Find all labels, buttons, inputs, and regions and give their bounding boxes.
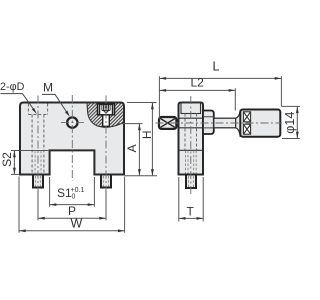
side M hole lines [179,118,204,128]
dim phi14 [281,106,300,138]
centerline body vertical [71,95,73,181]
dim S1 [50,177,95,207]
screw end X-box [159,117,176,129]
side recess [181,103,201,114]
dim L2 [159,88,235,110]
side stud hole hidden lines [186,151,197,174]
side stud thread hidden lines [188,151,194,174]
svg-text:H: H [140,130,154,139]
dim H [125,103,157,176]
hex socket [102,105,110,113]
svg-text:L: L [213,60,220,74]
side stud thread dashes [189,176,194,187]
svg-text:0: 0 [72,194,76,201]
cap insert upper X [243,112,250,122]
front view pin left [33,175,43,188]
svg-text:S2: S2 [0,152,14,167]
dim L [159,76,281,119]
thread dashes pin right [104,176,109,187]
screw shank [103,115,110,127]
svg-text:W: W [71,217,83,231]
hole M circle [67,117,77,127]
nut chamfer lines [203,117,214,128]
svg-text:L2: L2 [191,76,205,90]
svg-text:φ14: φ14 [283,112,297,134]
svg-text:2-φD: 2-φD [0,81,25,93]
dim W [19,177,125,233]
dim S2 [11,151,19,175]
centerline right hole [105,96,107,194]
centerline M horizontal [61,122,84,124]
dim T [179,177,203,222]
notch top plane line left [20,150,50,152]
counterbore white right [98,104,115,115]
svg-text:T: T [187,205,195,219]
svg-text:A: A [125,144,139,152]
side centerline vertical [190,96,192,194]
centerline left hole [37,96,39,194]
side notch top line [179,149,204,151]
leader M [42,94,68,114]
dim P [38,191,106,221]
front view pin right [101,175,111,188]
shaft [214,118,236,128]
screw axis centerline [156,122,283,124]
section break line [87,103,124,128]
hole hidden left [32,115,44,175]
flare [236,110,241,137]
cap phi14 [240,110,280,137]
dim A [117,124,143,176]
counterbore hidden left [28,104,47,115]
side hidden hole lines [185,114,197,151]
screw head [100,104,113,114]
thread dashes pin left [36,176,41,187]
front view body [20,103,124,175]
cap insert lower X [243,124,250,134]
nut [203,111,214,135]
section pocket hatch [87,103,124,128]
stud thread hidden lines left leg [35,151,41,174]
svg-text:M: M [43,81,53,95]
leader 2-phiD [1,94,36,112]
side stud [186,175,196,189]
side view block [179,103,204,175]
